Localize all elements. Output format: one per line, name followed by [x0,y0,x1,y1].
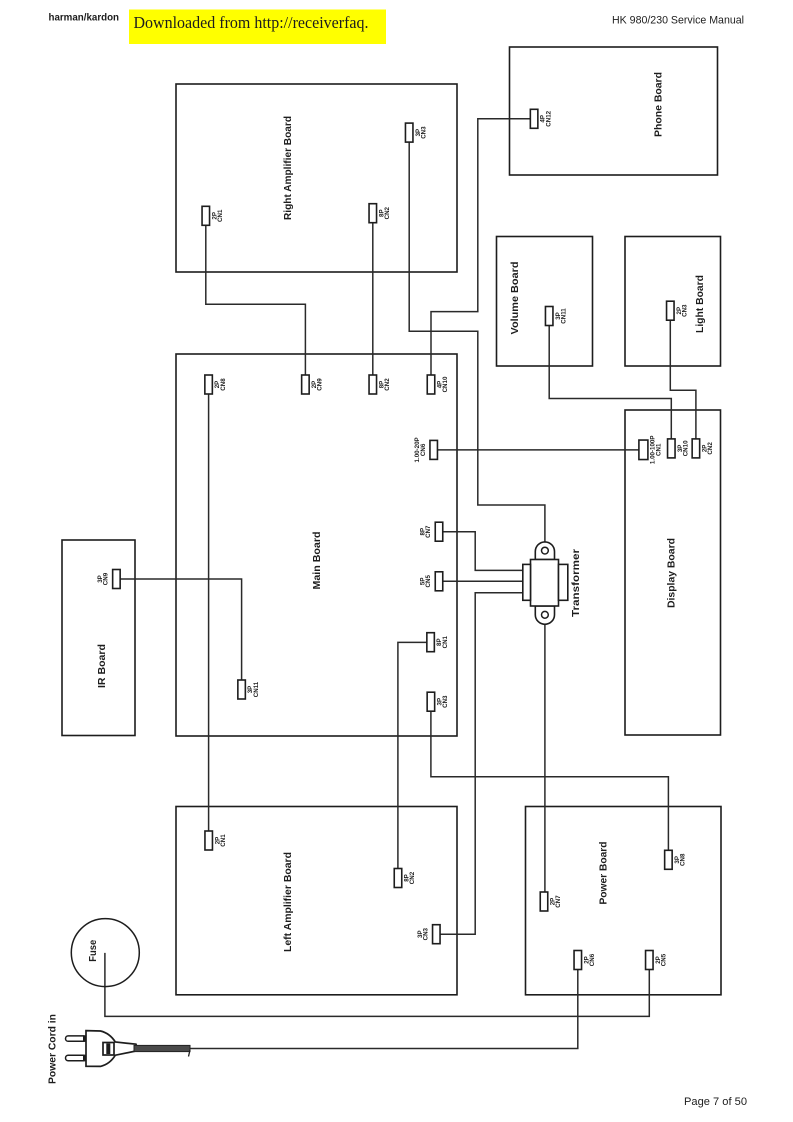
svg-text:CN8: CN8 [220,378,227,391]
wire: Main CN3 to Power CN8 [431,711,669,850]
svg-text:CN10: CN10 [682,440,689,456]
wire: Main CN6 to Display CN1 [434,449,639,451]
connector CN2 (8P) on Right Amplifier Board [369,204,391,223]
wire: Right Amp CN3 to Transformer top [409,142,545,548]
svg-text:CN11: CN11 [560,308,567,324]
svg-text:CN7: CN7 [425,525,432,538]
connector CN3 (3P) on Main Board [427,692,449,711]
power cord plug [66,1031,191,1067]
svg-text:CN7: CN7 [555,895,562,908]
connector CN12 (4P) on Phone Board [530,109,552,128]
wire: Main CN1 to Left Amp CN2 [398,642,427,868]
connector CN11 (3P) on Main Board [238,680,260,699]
connector CN3 (2P) on Light Board [667,301,689,320]
svg-text:IR Board: IR Board [96,644,108,688]
svg-text:CN6: CN6 [589,953,596,966]
svg-text:HK 980/230 Service Manual: HK 980/230 Service Manual [612,15,744,27]
svg-text:CN2: CN2 [409,871,416,884]
svg-text:Main Board: Main Board [311,532,323,590]
svg-text:CN8: CN8 [680,853,687,866]
svg-text:CN3: CN3 [681,304,688,317]
wire: Main CN8 to Left Amp CN1 [208,394,210,831]
board: Light Board [625,237,721,367]
svg-text:Transformer: Transformer [570,549,582,617]
svg-text:CN5: CN5 [425,575,432,588]
svg-text:CN6: CN6 [420,443,427,456]
svg-text:CN11: CN11 [253,681,260,697]
connector CN1 (2P) on Right Amplifier Board [202,206,224,225]
connector CN3 (3P) on Right Amplifier Board [405,123,427,142]
connector CN9 (3P) on IR Board [97,570,120,589]
board: Left Amplifier Board [176,807,457,995]
connector CN2 (8P) on Left Amplifier Board [394,869,416,888]
svg-text:CN1: CN1 [220,834,227,847]
svg-text:CN3: CN3 [420,126,427,139]
transformer T1 [523,542,582,624]
connector CN8 (2P) on Main Board [205,375,227,394]
svg-text:Volume Board: Volume Board [509,262,521,335]
connector CN1 (2P) on Left Amplifier Board [205,831,227,850]
connector CN5 (5P) on Main Board [419,572,442,591]
wire: Power cord to Power CN6 [190,970,578,1049]
svg-text:CN3: CN3 [422,927,429,940]
svg-text:CN5: CN5 [660,953,667,966]
svg-text:CN1: CN1 [442,635,449,648]
wire: Main CN7 to Transformer left top [443,532,523,571]
board: Display Board [625,410,721,735]
svg-text:CN2: CN2 [384,206,391,219]
connector CN8 (3P) on Power Board [665,850,687,869]
board: Right Amplifier Board [176,84,457,272]
connector CN5 (2P) on Power Board [646,951,668,970]
wire: Fuse to Power CN5 [105,953,649,1017]
connector CN6 (1.00-20P) on Main Board [414,437,437,462]
svg-text:CN10: CN10 [442,376,449,392]
board: Volume Board [497,237,593,367]
svg-text:harman/kardon: harman/kardon [49,13,120,24]
svg-text:CN2: CN2 [384,378,391,391]
svg-text:CN2: CN2 [707,442,714,455]
connector CN2 (2P) on Display Board [692,439,714,458]
wire: Phone CN12 to Main CN10 [431,119,530,375]
svg-text:Power Cord in: Power Cord in [47,1014,59,1084]
svg-text:Left Amplifier Board: Left Amplifier Board [282,852,294,952]
connector CN2 (8P) on Main Board [369,375,391,394]
connector CN6 (2P) on Power Board [574,951,596,970]
svg-text:CN1: CN1 [217,209,224,222]
svg-text:Fuse: Fuse [87,940,99,962]
wire: Transformer left bottom to Left Amp CN3 [440,593,523,935]
board: Phone Board [510,47,718,175]
connector CN10 (4P) on Main Board [427,375,449,394]
fuse F1 [71,919,139,987]
svg-text:CN9: CN9 [317,378,324,391]
wire: Transformer bottom to Power CN7 [544,619,546,892]
svg-text:CN3: CN3 [442,695,449,708]
wire: Right Amp CN2 to Main CN2 [372,223,374,375]
connector CN7 (2P) on Power Board [540,892,562,911]
header: yellow highlight banner [129,10,386,45]
svg-text:CN12: CN12 [545,110,552,126]
wire: Light CN3 to Display CN2 [670,320,696,439]
svg-text:Downloaded from http://receive: Downloaded from http://receiverfaq. [134,13,369,32]
connector CN9 (2P) on Main Board [302,375,324,394]
board: IR Board [62,540,135,736]
svg-text:CN9: CN9 [102,572,109,585]
connector CN3 (3P) on Left Amplifier Board [417,925,440,944]
svg-text:CN1: CN1 [655,443,662,456]
board: Power Board [526,807,722,995]
connector CN10 (3P) on Display Board [668,439,690,458]
svg-text:Right Amplifier Board: Right Amplifier Board [282,116,294,220]
wire: IR CN9 to Main CN11 [120,579,241,680]
wire: Main CN5 to Transformer left middle [443,580,523,582]
svg-text:Phone Board: Phone Board [653,72,665,137]
board: Main Board [176,354,457,736]
svg-text:Light Board: Light Board [694,275,706,333]
wire: Volume CN11 to Display CN10 [549,326,671,439]
svg-text:Display Board: Display Board [666,538,678,608]
connector CN11 (3P) on Volume Board [545,307,567,326]
svg-text:Power Board: Power Board [598,842,610,905]
svg-text:Page 7 of 50: Page 7 of 50 [684,1096,747,1108]
wire: Right Amp CN1 to Main CN9 [206,225,306,375]
connector CN1 (1.00-100P) on Display Board [639,436,662,465]
connector CN1 (8P) on Main Board [427,633,449,652]
connector CN7 (8P) on Main Board [419,522,442,541]
